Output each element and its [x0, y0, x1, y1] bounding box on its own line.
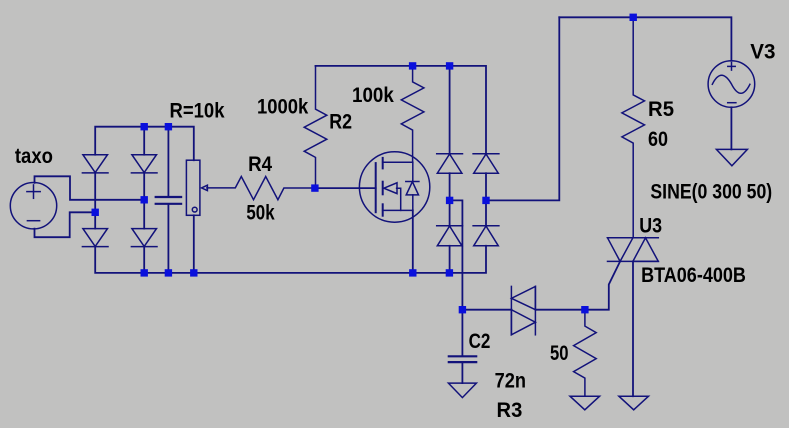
wire right bridge left column bottom	[449, 246, 451, 273]
wire taxo plus to bridge	[35, 176, 145, 200]
junction	[141, 196, 148, 203]
wire gate	[316, 187, 376, 189]
junction	[311, 184, 318, 191]
junction	[409, 62, 416, 69]
wire bridge to mains	[486, 17, 559, 200]
wire right bridge right column middle	[485, 173, 487, 226]
potentiometer R	[186, 160, 207, 215]
ground triac	[619, 396, 649, 410]
wire right bridge left column top	[449, 66, 451, 154]
wire right bridge left column middle	[449, 173, 451, 226]
junction	[459, 306, 466, 313]
wire triac gate	[585, 261, 620, 309]
wire diode column stub	[143, 127, 145, 155]
wire bridge to diac node	[450, 200, 463, 309]
diode D3	[82, 229, 108, 247]
wire taxo minus to bridge	[35, 212, 96, 237]
junction	[581, 306, 588, 313]
wire left bridge top rail	[95, 127, 194, 161]
svg-text:R=10k: R=10k	[170, 98, 225, 122]
svg-text:50: 50	[550, 341, 569, 365]
junction	[165, 123, 172, 130]
wire bottom rail	[95, 246, 486, 273]
svg-text:1000k: 1000k	[257, 95, 308, 119]
junction	[141, 269, 148, 276]
resistor R4	[207, 177, 316, 200]
resistor R5	[622, 17, 645, 238]
ground R3	[570, 396, 600, 410]
wire capacitor top stub	[167, 127, 169, 197]
svg-text:U3: U3	[639, 213, 662, 237]
svg-text:C2: C2	[469, 329, 491, 353]
svg-text:V3: V3	[750, 40, 775, 64]
wire C2 top stub	[461, 310, 463, 356]
wire left column middle	[94, 173, 96, 229]
junction	[165, 269, 172, 276]
wire mosfet source down	[412, 210, 414, 273]
wire top rail	[559, 17, 731, 61]
svg-text:R4: R4	[248, 152, 272, 176]
voltage source V3	[708, 61, 755, 108]
mosfet M1	[359, 152, 429, 222]
svg-text:BTA06-400B: BTA06-400B	[641, 263, 746, 287]
wire C2 bottom stub	[461, 363, 463, 383]
resistor 100k	[401, 66, 424, 162]
diode D4	[131, 229, 157, 247]
junction	[141, 123, 148, 130]
junction	[630, 14, 637, 21]
diode D8	[473, 226, 499, 246]
wire diac right	[535, 309, 585, 311]
junction	[409, 269, 416, 276]
capacitor C1	[156, 197, 181, 204]
svg-text:100k: 100k	[352, 83, 394, 107]
svg-text:50k: 50k	[246, 201, 274, 225]
resistor R2	[304, 66, 327, 188]
svg-text:R2: R2	[329, 110, 352, 134]
resistor R3	[574, 310, 597, 397]
junction	[482, 197, 489, 204]
diode D5	[437, 154, 463, 173]
wire V3 to ground	[730, 107, 732, 149]
ground C2	[448, 383, 476, 398]
triac U3	[608, 238, 659, 262]
wire potentiometer bottom stub	[193, 215, 195, 273]
diode D7	[437, 226, 463, 246]
ground V3	[716, 149, 747, 165]
svg-text:R5: R5	[648, 97, 674, 121]
voltage source taxo	[10, 183, 56, 229]
svg-text:taxo: taxo	[15, 144, 53, 168]
wire diac left	[462, 309, 511, 311]
wire upper rail	[316, 66, 487, 154]
diode D1	[82, 155, 108, 173]
junction	[446, 197, 453, 204]
wire triac anode to ground	[632, 261, 634, 396]
diac U2	[511, 286, 535, 334]
junction	[446, 62, 453, 69]
svg-text:SINE(0 300 50): SINE(0 300 50)	[650, 180, 772, 204]
wire capacitor bottom stub	[167, 205, 169, 273]
diode D2	[131, 155, 157, 173]
wire second column middle	[143, 173, 145, 229]
diode D6	[473, 154, 499, 173]
svg-text:72n: 72n	[495, 369, 526, 393]
junction	[446, 269, 453, 276]
svg-text:R3: R3	[497, 398, 523, 422]
junction	[190, 269, 197, 276]
junction	[92, 209, 99, 216]
wire second column bottom	[143, 246, 145, 273]
svg-text:60: 60	[648, 127, 668, 151]
capacitor C2	[449, 356, 476, 362]
